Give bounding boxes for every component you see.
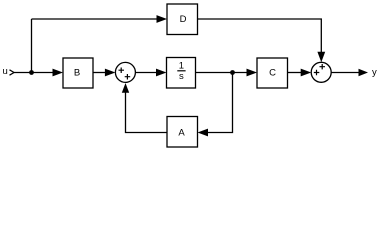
arrow into A	[198, 129, 209, 137]
wire u to B	[14, 72, 55, 74]
arrow up into sum1	[122, 83, 129, 93]
wire sum2 to output y	[331, 72, 360, 74]
summing junction sum2	[311, 62, 331, 82]
input port chevron	[10, 70, 15, 75]
wire branch up from u node	[31, 19, 33, 73]
summing junction sum1	[115, 62, 135, 82]
svg-text:D: D	[180, 14, 187, 25]
output port y label	[372, 67, 377, 78]
wire to D	[32, 18, 159, 20]
svg-text:1: 1	[179, 61, 184, 72]
arrow into sum1	[105, 69, 116, 77]
svg-text:C: C	[269, 68, 276, 79]
wire node x down to A	[207, 73, 233, 133]
block B	[63, 58, 93, 88]
arrow into B	[53, 69, 64, 77]
arrow down into sum2	[317, 52, 325, 63]
wire D to sum2 corner	[198, 19, 321, 54]
arrow into sum2	[301, 69, 312, 77]
wire C to sum2	[288, 72, 303, 74]
block A	[167, 117, 198, 148]
svg-text:B: B	[74, 68, 80, 79]
wire sum1 to integrator	[136, 72, 159, 74]
block integrator 1/s	[167, 58, 196, 89]
junction dot node x	[230, 70, 235, 75]
svg-text:A: A	[178, 128, 185, 139]
junction dot node u	[29, 70, 34, 75]
arrow into C	[247, 69, 258, 77]
svg-text:s: s	[179, 71, 184, 82]
block D	[167, 4, 198, 35]
block C	[257, 58, 288, 88]
output arrowhead	[359, 69, 369, 77]
arrow into integrator	[156, 69, 167, 77]
svg-text:y: y	[372, 67, 377, 78]
wire B to sum1	[93, 72, 107, 74]
arrow into D	[157, 15, 168, 23]
svg-text:u: u	[3, 66, 8, 77]
wire integrator to C	[196, 72, 248, 74]
wire A to sum1 bottom	[126, 91, 167, 133]
input port u label	[3, 66, 8, 77]
